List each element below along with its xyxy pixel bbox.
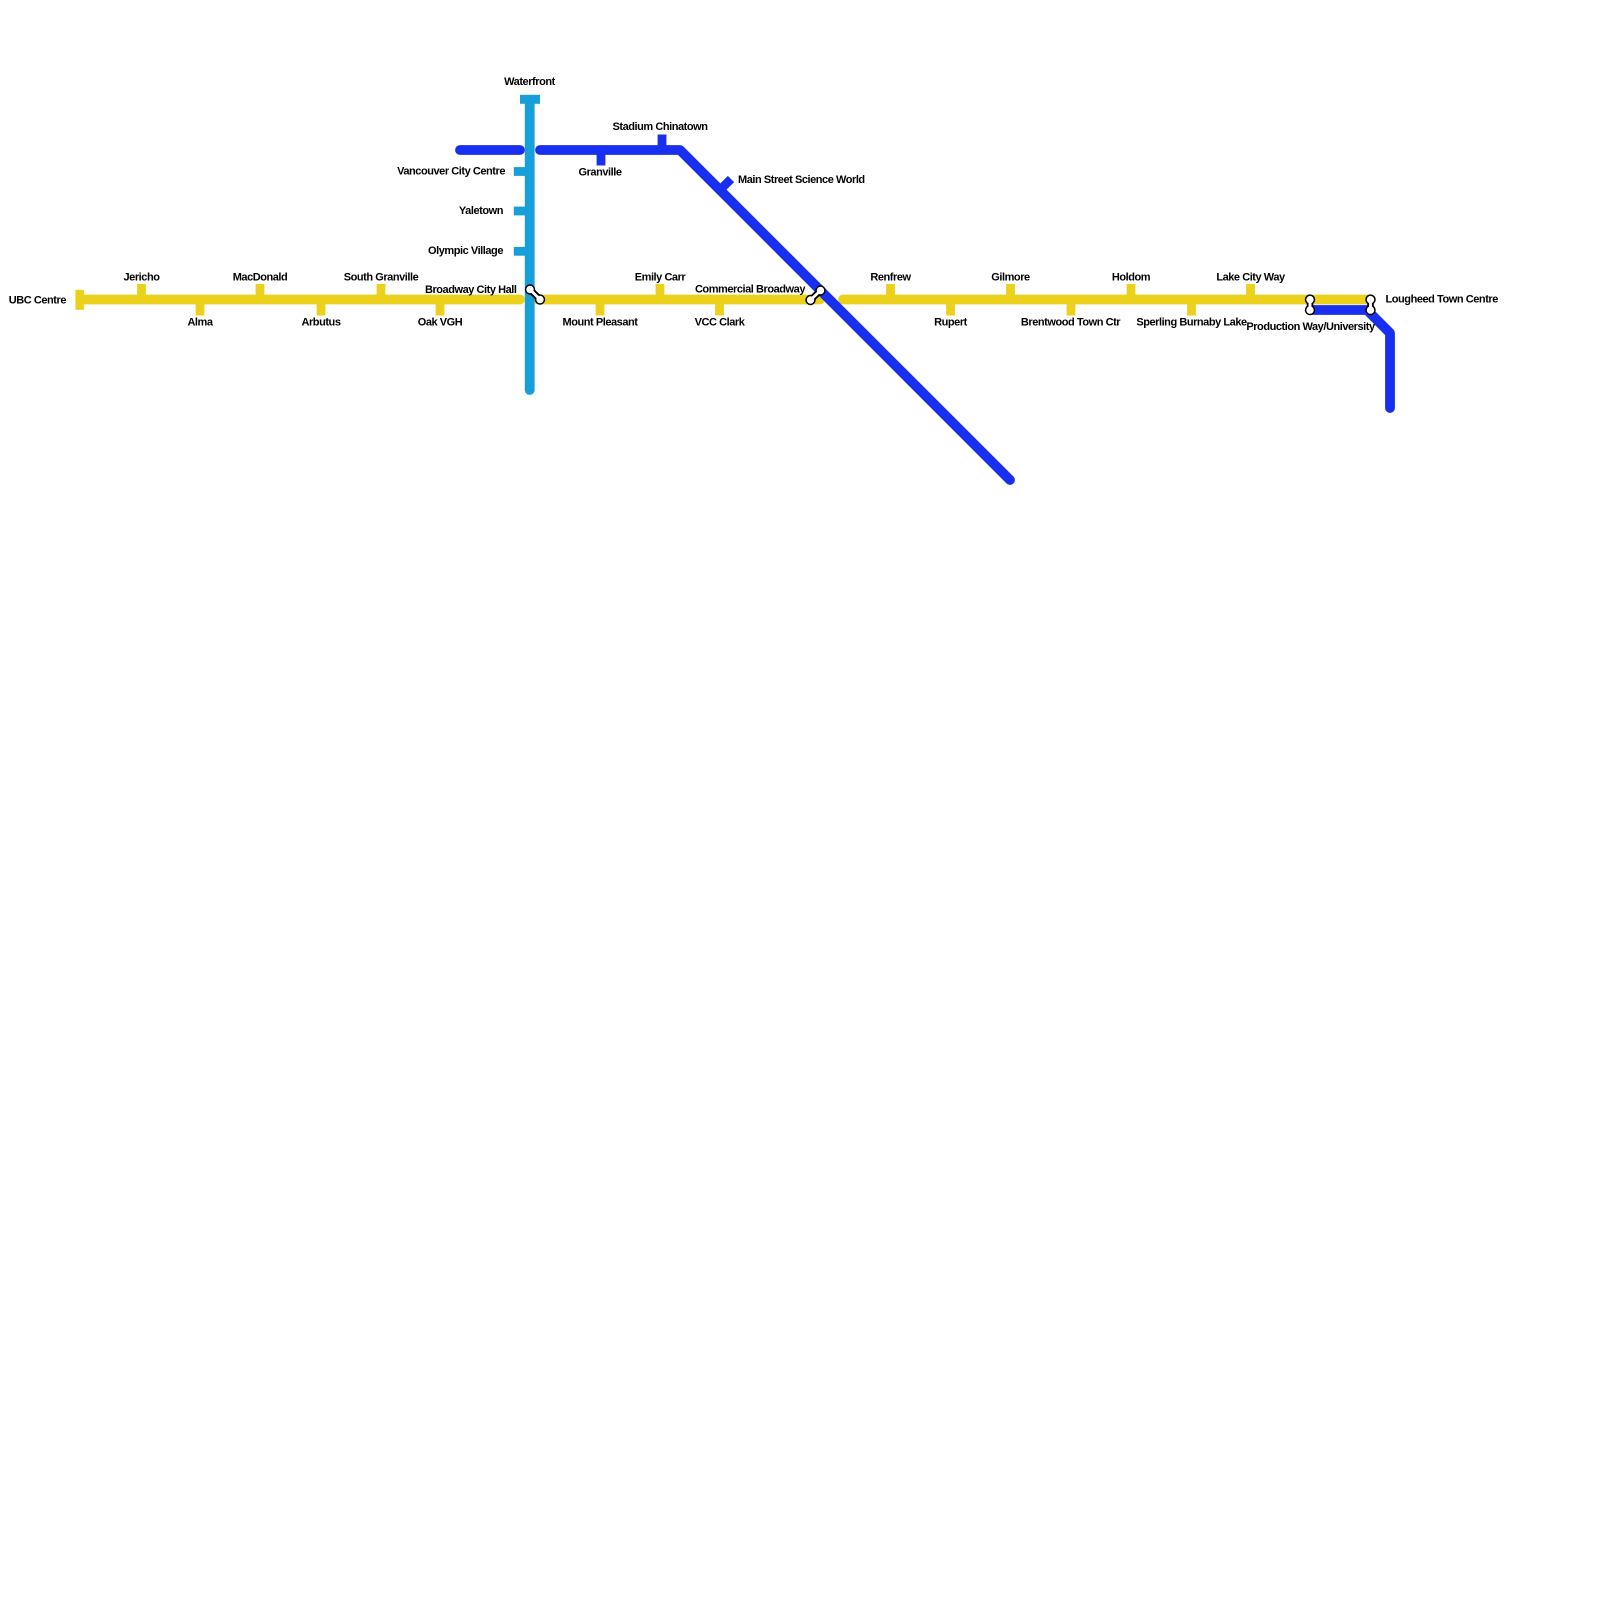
interchange icon Lougheed Town Centre bbox=[1365, 294, 1375, 315]
tick MacDonald bbox=[256, 284, 265, 300]
tick Gilmore bbox=[1006, 284, 1015, 300]
svg-text:Main Street Science World: Main Street Science World bbox=[738, 174, 865, 186]
svg-text:Arbutus: Arbutus bbox=[301, 317, 340, 329]
svg-text:Stadium Chinatown: Stadium Chinatown bbox=[612, 121, 708, 133]
tick Stadium Chinatown bbox=[658, 135, 667, 151]
wire Expo blue west segment 2 with diagonal to southeast bbox=[540, 150, 1010, 480]
tick Olympic Village bbox=[514, 247, 530, 256]
svg-text:Gilmore: Gilmore bbox=[991, 272, 1030, 284]
svg-text:Renfrew: Renfrew bbox=[870, 272, 911, 284]
tick Alma bbox=[196, 300, 205, 316]
wire Canada Line vertical bbox=[525, 99, 535, 390]
wire yellow segment 1 UBC to Broadway City Hall bbox=[81, 295, 520, 305]
svg-text:Sperling Burnaby Lake: Sperling Burnaby Lake bbox=[1136, 317, 1247, 329]
tick Rupert bbox=[946, 300, 955, 316]
tick Vancouver City Centre bbox=[514, 167, 530, 176]
tick Brentwood Town Ctr bbox=[1067, 300, 1076, 316]
line Millennium/Broadway yellow: UBC terminus bar bbox=[75, 290, 84, 310]
svg-text:South Granville: South Granville bbox=[344, 272, 419, 284]
interchange icon Commercial Broadway bbox=[805, 285, 825, 305]
tick Emily Carr bbox=[656, 284, 665, 300]
svg-text:VCC Clark: VCC Clark bbox=[695, 317, 746, 329]
wire Expo blue east segment Production Way to Lougheed and south bbox=[1310, 310, 1390, 408]
tick Oak VGH bbox=[436, 300, 445, 316]
tick VCC Clark bbox=[715, 300, 724, 316]
tick Yaletown bbox=[514, 207, 530, 216]
tick Sperling Burnaby Lake bbox=[1187, 300, 1196, 316]
svg-text:Jericho: Jericho bbox=[124, 272, 161, 284]
svg-text:Granville: Granville bbox=[578, 167, 621, 179]
tick Holdom bbox=[1127, 284, 1136, 300]
svg-text:Broadway City Hall: Broadway City Hall bbox=[425, 284, 517, 296]
svg-text:Alma: Alma bbox=[187, 317, 213, 329]
tick Renfrew bbox=[886, 284, 895, 300]
wire Expo blue west segment 1 bbox=[460, 145, 520, 155]
line Canada Line cyan: Waterfront terminus cap bbox=[520, 95, 540, 104]
svg-text:Emily Carr: Emily Carr bbox=[635, 272, 687, 284]
tick Jericho bbox=[137, 284, 146, 300]
tick Main Street Science World bbox=[720, 179, 731, 190]
tick Mount Pleasant bbox=[596, 300, 605, 316]
svg-text:Waterfront: Waterfront bbox=[504, 76, 555, 88]
svg-text:Olympic Village: Olympic Village bbox=[428, 245, 503, 257]
interchange icon Broadway City Hall bbox=[525, 284, 545, 304]
svg-text:Lake City Way: Lake City Way bbox=[1216, 272, 1286, 284]
svg-text:Yaletown: Yaletown bbox=[459, 205, 504, 217]
svg-text:Vancouver City Centre: Vancouver City Centre bbox=[397, 165, 505, 177]
round cap bottom of Canada Line bbox=[525, 389, 535, 390]
svg-text:Commercial Broadway: Commercial Broadway bbox=[695, 284, 806, 296]
wire yellow segment 2 Broadway City Hall to Commercial Broadway bbox=[538, 295, 820, 305]
wire yellow segment 3 Commercial Broadway to Lougheed bbox=[843, 295, 1371, 305]
svg-text:Production Way/University: Production Way/University bbox=[1246, 321, 1376, 333]
svg-text:UBC Centre: UBC Centre bbox=[9, 294, 67, 306]
tick South Granville bbox=[377, 284, 386, 300]
svg-text:Rupert: Rupert bbox=[934, 317, 968, 329]
svg-text:Lougheed Town Centre: Lougheed Town Centre bbox=[1386, 294, 1499, 306]
svg-text:Mount Pleasant: Mount Pleasant bbox=[563, 317, 639, 329]
tick Lake City Way bbox=[1246, 284, 1255, 300]
svg-text:Holdom: Holdom bbox=[1112, 272, 1151, 284]
tick Granville bbox=[597, 150, 606, 166]
svg-text:Brentwood Town Ctr: Brentwood Town Ctr bbox=[1021, 317, 1121, 329]
interchange icon Production Way/University bbox=[1305, 294, 1315, 315]
svg-text:Oak VGH: Oak VGH bbox=[418, 317, 463, 329]
tick Arbutus bbox=[317, 300, 326, 316]
svg-text:MacDonald: MacDonald bbox=[233, 272, 288, 284]
